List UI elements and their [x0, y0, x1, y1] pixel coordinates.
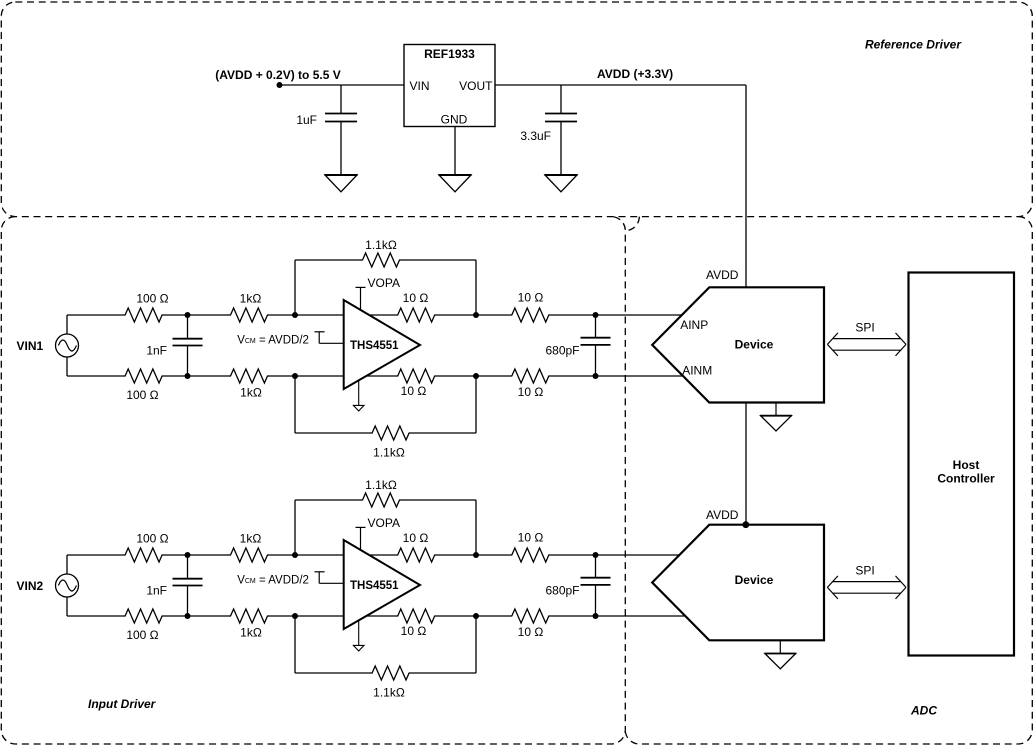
resistor 1kohm top (VIN2) [230, 548, 269, 562]
label Input Driver [88, 697, 157, 711]
wire: opamp out top [369, 314, 397, 316]
svg-text:1kΩ: 1kΩ [240, 292, 262, 306]
node dot bottom out [473, 613, 479, 619]
label Reference Driver [865, 38, 962, 52]
svg-text:ADC: ADC [910, 704, 937, 718]
resistor 10ohm top second (VIN2) [511, 548, 550, 562]
node: input supply dot [277, 82, 283, 88]
wire: VIN1 top rail lead [67, 314, 125, 316]
svg-text:VOUT: VOUT [459, 79, 493, 93]
label AVDD (+3.3V) [597, 67, 673, 81]
wire: VIN1 source top to rail [66, 315, 68, 334]
wire: fb bottom left vertical [294, 616, 296, 673]
capacitor 680pF [581, 578, 611, 585]
wire: node to 680pF top [595, 555, 597, 578]
svg-text:1.1kΩ: 1.1kΩ [365, 478, 397, 492]
svg-text:10 Ω: 10 Ω [518, 530, 544, 544]
wire: top rail to node [163, 314, 230, 316]
svg-text:100 Ω: 100 Ω [126, 628, 158, 642]
opamp ground stub [358, 380, 360, 405]
svg-text:10 Ω: 10 Ω [403, 291, 429, 305]
svg-text:VIN: VIN [410, 79, 430, 93]
pin VOPA tick [356, 526, 366, 528]
svg-text:100 Ω: 100 Ω [136, 292, 168, 306]
resistor 100ohm bottom (VIN2) [124, 609, 163, 623]
svg-text:VIN1: VIN1 [17, 339, 44, 353]
label THS4551 [350, 340, 399, 352]
svg-text:AINM: AINM [682, 364, 712, 378]
wire: VIN1 source bottom to rail [66, 357, 68, 376]
wire: node to 1nF top [187, 555, 189, 579]
SPI bus arrow [827, 576, 906, 599]
signal source VIN1 (sine generator) [56, 334, 79, 357]
pin label GND [441, 113, 468, 127]
wire: 10ohm bottom to node [435, 615, 511, 617]
svg-text:1kΩ: 1kΩ [240, 386, 262, 400]
resistor 100ohm top (VIN2) [124, 548, 163, 562]
svg-text:REF1933: REF1933 [424, 47, 475, 61]
label 1nF [146, 584, 167, 598]
wire: VIN2 bottom rail lead [67, 615, 125, 617]
label 10 ohm top first [403, 531, 429, 545]
wire: 10ohm top to node [435, 554, 511, 556]
wire: C2 bottom to ground [560, 122, 562, 176]
svg-text:10 Ω: 10 Ω [518, 290, 544, 304]
label 10 ohm bottom first [401, 384, 427, 398]
ADC device (pentagon) [652, 525, 824, 641]
wire: node to 680pF top [595, 315, 597, 338]
svg-text:Controller: Controller [937, 472, 995, 486]
pin label VIN [410, 79, 430, 93]
svg-text:(AVDD + 0.2V) to 5.5 V: (AVDD + 0.2V) to 5.5 V [215, 68, 340, 82]
signal source VIN2 (sine generator) [56, 574, 79, 597]
label 100 ohm top [136, 532, 168, 546]
label 1.1k bottom [373, 445, 405, 459]
wire: 1k bottom to opamp [268, 615, 344, 617]
label SPI [855, 321, 874, 335]
wire: 1k top to opamp [268, 314, 344, 316]
pin VOPA wire [360, 287, 362, 310]
wire: to AINM [549, 375, 683, 377]
svg-text:THS4551: THS4551 [350, 340, 399, 352]
label 10 ohm bottom first [401, 624, 427, 638]
wire: opamp out bottom [366, 375, 397, 377]
wire: fb bottom right vertical [475, 376, 477, 433]
VCM vertical [318, 572, 320, 584]
label AVDD pin [706, 268, 739, 282]
op-amp THS4551 (VIN1) [344, 300, 420, 389]
resistor 10ohm bottom second (VIN1) [511, 369, 550, 383]
wire: fb top horizontal left [295, 259, 362, 261]
svg-text:Device: Device [735, 573, 774, 587]
label 3.3uF [520, 129, 551, 143]
wire: opamp out top [369, 554, 397, 556]
wire: 10ohm bottom to node [435, 375, 511, 377]
ground below device [765, 654, 797, 669]
SPI bus arrow [827, 333, 906, 356]
label (AVDD + 0.2V) to 5.5 V [215, 68, 340, 82]
node dot bottom out [473, 373, 479, 379]
wire: 680pF bottom to node [595, 345, 597, 376]
svg-text:VOPA: VOPA [368, 276, 400, 290]
wire: 1nF bottom to node [187, 586, 189, 617]
node dot top out [473, 552, 479, 558]
capacitor 1nF (VIN1) [173, 339, 203, 346]
ground below REF1933 GND [439, 175, 472, 192]
svg-text:THS4551: THS4551 [350, 580, 399, 592]
svg-text:SPI: SPI [855, 321, 874, 335]
svg-text:680pF: 680pF [545, 344, 579, 358]
node dot bottom fb [292, 613, 298, 619]
ground below device [760, 416, 792, 431]
wire: VOUT to AVDD net [495, 84, 746, 86]
resistor 1kohm bottom (VIN2) [230, 609, 269, 623]
node dot 680pF top [593, 312, 599, 318]
label AVDD pin [706, 508, 739, 522]
label THS4551 [350, 580, 399, 592]
label 1nF [146, 344, 167, 358]
svg-text:VOPA: VOPA [368, 516, 400, 530]
label VCM = AVDD/2 [237, 335, 309, 347]
node dot top filter [185, 312, 191, 318]
wire: VIN2 top rail lead [67, 554, 125, 556]
source VIN2 label [17, 579, 44, 593]
wire: AVDD net down to device 1 [745, 85, 747, 287]
wire: bottom rail to node [163, 375, 230, 377]
label Device [735, 337, 774, 351]
wire: 1k bottom to opamp [268, 375, 344, 377]
label 1.1k top [365, 478, 397, 492]
svg-text:SPI: SPI [855, 564, 874, 578]
VCM vertical [318, 332, 320, 344]
resistor 1.1kohm top fb (VIN2) [362, 493, 401, 507]
svg-text:VCM = AVDD/2: VCM = AVDD/2 [237, 335, 309, 347]
label 1uF [296, 113, 317, 127]
svg-text:AINP: AINP [680, 318, 708, 332]
svg-text:100 Ω: 100 Ω [136, 532, 168, 546]
svg-text:10 Ω: 10 Ω [401, 624, 427, 638]
resistor 1.1kohm top fb (VIN1) [362, 253, 401, 267]
IC U1 REF1933 box [404, 45, 495, 127]
label 1k top [240, 532, 262, 546]
wire: bottom rail to node [163, 615, 230, 617]
svg-text:1uF: 1uF [296, 113, 317, 127]
svg-text:GND: GND [441, 113, 468, 127]
wire: fb bottom horizontal right [410, 672, 476, 674]
VCM tick [315, 571, 325, 573]
svg-text:10 Ω: 10 Ω [403, 531, 429, 545]
svg-text:1.1kΩ: 1.1kΩ [373, 685, 405, 699]
resistor 1.1kohm bottom fb (VIN1) [371, 426, 410, 440]
wire: fb bottom horizontal right [410, 432, 476, 434]
svg-text:AVDD (+3.3V): AVDD (+3.3V) [597, 67, 673, 81]
wire: VCM to opamp [319, 582, 344, 584]
label VCM = AVDD/2 [237, 575, 309, 587]
node dot top filter [185, 552, 191, 558]
wire: to AINP [549, 554, 679, 556]
node dot bottom fb [292, 373, 298, 379]
section box: Reference Driver (dashed outline) [1, 2, 1032, 217]
wire: fb top horizontal right [400, 499, 476, 501]
wire: opamp out bottom [366, 615, 397, 617]
label 680pF [545, 344, 579, 358]
capacitor C1 1uF [325, 114, 357, 122]
label 10 ohm bottom second [518, 385, 544, 399]
wire: fb bottom left vertical [294, 376, 296, 433]
resistor 10ohm bottom second (VIN2) [511, 609, 550, 623]
wire: VCM to opamp [319, 342, 344, 344]
label 10 ohm bottom second [518, 625, 544, 639]
wire: AVDD device1 to device2 [745, 403, 747, 525]
wire: AVDD net to C2 top [560, 85, 562, 114]
wire: fb top left vertical [294, 500, 296, 555]
wire: VIN2 source bottom to rail [66, 597, 68, 616]
resistor 1kohm bottom (VIN1) [230, 369, 269, 383]
svg-text:Input Driver: Input Driver [88, 697, 157, 711]
capacitor C2 3.3uF [545, 114, 577, 122]
wire: fb top right vertical [475, 260, 477, 315]
label 100 ohm bottom [126, 628, 158, 642]
node dot AVDD [742, 521, 749, 528]
node dot 680pF bottom [593, 373, 599, 379]
wire: VIN net to C1 top [340, 85, 342, 114]
label ADC [910, 704, 937, 718]
svg-text:10 Ω: 10 Ω [518, 385, 544, 399]
pin VOPA wire [360, 527, 362, 550]
svg-text:AVDD: AVDD [706, 508, 739, 522]
svg-text:1nF: 1nF [146, 344, 167, 358]
ground below opamp [353, 645, 364, 651]
resistor 10ohm bottom first (VIN1) [397, 369, 436, 383]
resistor 10ohm top first (VIN1) [397, 308, 436, 322]
svg-text:VCM = AVDD/2: VCM = AVDD/2 [237, 575, 309, 587]
opamp ground stub [358, 620, 360, 645]
op-amp THS4551 (VIN2) [344, 540, 420, 629]
label 10 ohm top second [518, 290, 544, 304]
resistor 10ohm bottom first (VIN2) [397, 609, 436, 623]
ground below C1 [325, 175, 358, 192]
label SPI [855, 564, 874, 578]
wire: 10ohm top to node [435, 314, 511, 316]
label 1k top [240, 292, 262, 306]
node dot top fb [292, 312, 298, 318]
wire: fb bottom right vertical [475, 616, 477, 673]
node dot bottom filter [185, 373, 191, 379]
wire: C1 bottom to ground [340, 122, 342, 176]
label 10 ohm top first [403, 291, 429, 305]
svg-text:1.1kΩ: 1.1kΩ [373, 445, 405, 459]
wire: to AINM [549, 615, 685, 617]
device ground stub [779, 640, 781, 653]
label AINP [680, 318, 708, 332]
ground below opamp [353, 405, 364, 411]
svg-text:680pF: 680pF [545, 584, 579, 598]
label 680pF [545, 584, 579, 598]
wire: 680pF bottom to node [595, 585, 597, 616]
label 100 ohm bottom [126, 388, 158, 402]
label Device [735, 573, 774, 587]
wire: fb top horizontal left [295, 499, 362, 501]
node dot 680pF bottom [593, 613, 599, 619]
svg-text:Device: Device [735, 337, 774, 351]
svg-text:3.3uF: 3.3uF [520, 129, 551, 143]
section box: ADC (dashed outline) [625, 217, 1032, 744]
label AINM [682, 364, 712, 378]
wire: 1nF bottom to node [187, 346, 189, 377]
capacitor 680pF [581, 338, 611, 345]
wire: GND pin down [454, 127, 456, 176]
label 1.1k bottom [373, 685, 405, 699]
svg-text:1kΩ: 1kΩ [240, 532, 262, 546]
resistor 10ohm top first (VIN2) [397, 548, 436, 562]
wire: VIN1 bottom rail lead [67, 375, 125, 377]
svg-text:10 Ω: 10 Ω [518, 625, 544, 639]
label 1k bottom [240, 626, 262, 640]
capacitor 1nF (VIN2) [173, 579, 203, 586]
ground below C2 [545, 175, 578, 192]
wire: to AINP [549, 314, 682, 316]
wire: fb top right vertical [475, 500, 477, 555]
svg-text:Reference Driver: Reference Driver [865, 38, 962, 52]
label 1.1k top [365, 238, 397, 252]
svg-text:1nF: 1nF [146, 584, 167, 598]
label 10 ohm top second [518, 530, 544, 544]
ADC device (pentagon) [652, 287, 824, 402]
node dot bottom filter [185, 613, 191, 619]
wire: VIN2 source top to rail [66, 555, 68, 574]
source VIN1 label [17, 339, 44, 353]
label VOPA [368, 276, 400, 290]
pin VOPA tick [356, 286, 366, 288]
resistor 1.1kohm bottom fb (VIN2) [371, 666, 410, 680]
wire: node to 1nF top [187, 315, 189, 339]
label REF1933 [424, 47, 475, 61]
host controller box [909, 273, 1015, 656]
node dot top out [473, 312, 479, 318]
wire: fb bottom horizontal left [295, 672, 372, 674]
resistor 10ohm top second (VIN1) [511, 308, 550, 322]
pin label VOUT [459, 79, 493, 93]
svg-text:VIN2: VIN2 [17, 579, 44, 593]
VCM tick [315, 331, 325, 333]
label VOPA [368, 516, 400, 530]
svg-text:1.1kΩ: 1.1kΩ [365, 238, 397, 252]
label 100 ohm top [136, 292, 168, 306]
resistor 100ohm top (VIN1) [124, 308, 163, 322]
svg-text:Host: Host [953, 458, 980, 472]
device ground stub [775, 403, 777, 416]
svg-text:100 Ω: 100 Ω [126, 388, 158, 402]
node dot 680pF top [593, 552, 599, 558]
resistor 100ohm bottom (VIN1) [124, 369, 163, 383]
wire: 1k top to opamp [268, 554, 344, 556]
wire: fb top left vertical [294, 260, 296, 315]
node dot top fb [292, 552, 298, 558]
wire: top rail to node [163, 554, 230, 556]
wire: supply input to VIN [280, 84, 405, 86]
svg-text:1kΩ: 1kΩ [240, 626, 262, 640]
svg-text:AVDD: AVDD [706, 268, 739, 282]
wire: fb bottom horizontal left [295, 432, 372, 434]
resistor 1kohm top (VIN1) [230, 308, 269, 322]
label 1k bottom [240, 386, 262, 400]
section box: Input Driver (dashed outline) [1, 217, 625, 744]
label Host Controller [937, 458, 995, 486]
wire: fb top horizontal right [400, 259, 476, 261]
svg-text:10 Ω: 10 Ω [401, 384, 427, 398]
